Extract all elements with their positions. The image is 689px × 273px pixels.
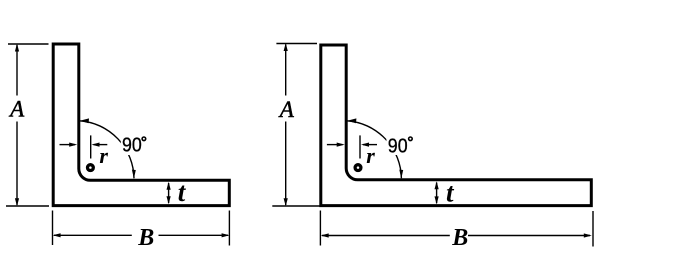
svg-text:B: B [451, 225, 468, 251]
svg-text:r: r [99, 143, 108, 168]
svg-text:B: B [137, 225, 154, 251]
svg-text:90: 90 [388, 135, 408, 157]
svg-text:90: 90 [122, 135, 142, 157]
svg-text:A: A [8, 97, 25, 122]
svg-text:A: A [278, 97, 295, 122]
svg-text:r: r [366, 143, 375, 168]
